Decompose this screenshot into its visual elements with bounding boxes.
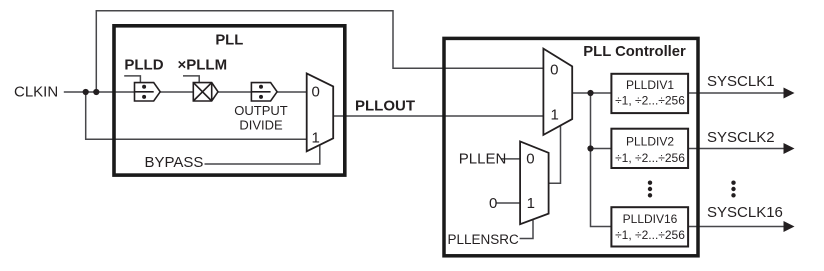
- svg-text:÷1, ÷2...÷256: ÷1, ÷2...÷256: [615, 151, 685, 165]
- svg-text:PLL: PLL: [215, 33, 243, 49]
- svg-text:CLKIN: CLKIN: [14, 84, 58, 101]
- svg-text:BYPASS: BYPASS: [145, 154, 204, 171]
- svg-text:PLLDIV16: PLLDIV16: [623, 212, 678, 226]
- svg-text:×PLLM: ×PLLM: [178, 57, 228, 74]
- svg-text:PLLD: PLLD: [124, 57, 163, 74]
- svg-text:0: 0: [526, 151, 534, 168]
- svg-text:SYSCLK1: SYSCLK1: [707, 73, 775, 90]
- svg-text:OUTPUT: OUTPUT: [234, 103, 288, 118]
- svg-text:PLL Controller: PLL Controller: [583, 44, 686, 60]
- svg-text:1: 1: [551, 107, 559, 124]
- svg-text:PLLOUT: PLLOUT: [355, 98, 415, 115]
- svg-text:1: 1: [312, 129, 320, 146]
- svg-text:÷1, ÷2...÷256: ÷1, ÷2...÷256: [615, 228, 685, 242]
- svg-text:0: 0: [312, 83, 320, 100]
- svg-text:SYSCLK16: SYSCLK16: [707, 204, 783, 221]
- svg-text:0: 0: [550, 61, 558, 78]
- svg-text:PLLENSRC: PLLENSRC: [448, 232, 520, 247]
- svg-text:PLLDIV1: PLLDIV1: [626, 78, 674, 92]
- svg-text:PLLEN: PLLEN: [459, 151, 507, 168]
- svg-text:1: 1: [527, 195, 535, 212]
- svg-text:DIVIDE: DIVIDE: [239, 117, 283, 132]
- svg-text:PLLDIV2: PLLDIV2: [626, 135, 674, 149]
- svg-text:0: 0: [489, 195, 497, 212]
- svg-text:SYSCLK2: SYSCLK2: [707, 129, 775, 146]
- svg-text:÷1, ÷2...÷256: ÷1, ÷2...÷256: [615, 94, 685, 108]
